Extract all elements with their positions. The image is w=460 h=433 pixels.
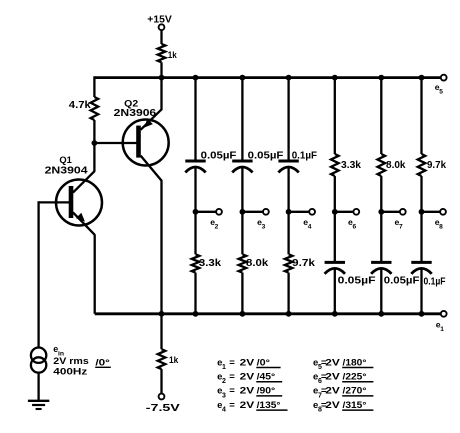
- label e3: [257, 217, 265, 231]
- svg-text:1k: 1k: [168, 50, 178, 61]
- value label 1k (R1): [168, 50, 178, 61]
- wire node e2 to R4: [194, 212, 196, 255]
- label e8: [435, 217, 443, 231]
- value label 0.05µF (C2): [248, 151, 284, 162]
- label 2V rms: [53, 356, 89, 367]
- value label 0.1µF (C3): [292, 151, 317, 162]
- node e8 junction: [419, 209, 425, 215]
- svg-text:2: 2: [215, 223, 219, 230]
- value label 9.7k (R9): [427, 160, 446, 171]
- value label 0.05µF (C1): [201, 151, 237, 162]
- wire R2 to node A: [93, 120, 95, 143]
- wire R8 to node e7: [380, 176, 382, 212]
- svg-text:8: 8: [439, 223, 443, 230]
- junction dot bottom bus / branch 1: [193, 311, 199, 317]
- label e7: [395, 217, 403, 231]
- terminal e5 (top right): [441, 75, 447, 81]
- wire R5 to bottom bus: [241, 273, 243, 314]
- label equation e4 = 2V angle 135 deg: [217, 400, 287, 414]
- label equation e3 = 2V angle 90 deg: [217, 386, 282, 400]
- value label 8.0k (R8): [386, 160, 406, 171]
- svg-text:=: =: [229, 357, 235, 368]
- wire R3 to -7.5V terminal: [160, 369, 162, 394]
- svg-text:4: 4: [308, 223, 312, 230]
- svg-text:8.0k: 8.0k: [246, 258, 269, 269]
- label Q1: [59, 155, 72, 166]
- transistor Q2 base bar: [136, 126, 141, 158]
- wire R7 to node e6: [334, 176, 336, 212]
- wire node A down to Q1 collector: [93, 143, 95, 172]
- junction dot bottom bus / branch 4: [332, 311, 338, 317]
- label 2N3904: [45, 165, 89, 176]
- transistor Q1 base bar: [69, 186, 74, 218]
- wire branch 3 top bus to C3: [287, 78, 289, 161]
- terminal e2: [216, 209, 222, 215]
- svg-text:/90°: /90°: [257, 386, 276, 397]
- label equation e1 = 2V angle 0 deg: [217, 357, 281, 371]
- wire R6 to bottom bus: [287, 273, 289, 314]
- value label 0.05µF (C4): [338, 276, 376, 287]
- svg-text:/225°: /225°: [343, 372, 367, 383]
- svg-text:9.7k: 9.7k: [292, 258, 316, 269]
- capacitor C5 0.05µF: [371, 262, 391, 273]
- node e3 junction: [240, 209, 246, 215]
- node e7 junction: [378, 209, 384, 215]
- transistor Q1 emitter lead: [73, 212, 95, 234]
- value label 0.1µF (C6): [424, 277, 446, 288]
- svg-text:3: 3: [262, 223, 266, 230]
- wire node e4 to terminal: [289, 211, 310, 213]
- junction dot top bus / branch 4: [332, 75, 338, 81]
- wire R1 to top bus: [160, 62, 162, 77]
- svg-text:Q1: Q1: [59, 155, 72, 166]
- power terminal -7.5V: [146, 394, 180, 414]
- svg-text:2V: 2V: [325, 400, 340, 411]
- svg-text:+15V: +15V: [147, 15, 172, 26]
- wire node e2 to terminal: [196, 211, 217, 213]
- value label 8.0k (R5): [246, 258, 269, 269]
- svg-text:0.1µF: 0.1µF: [292, 151, 317, 162]
- svg-text:/0°: /0°: [257, 357, 271, 368]
- terminal e4: [309, 209, 315, 215]
- label equation e5 = 2V angle 180 deg: [313, 357, 373, 371]
- svg-text:/45°: /45°: [257, 372, 276, 383]
- node e6 junction: [332, 209, 338, 215]
- junction dot top bus / branch 6: [419, 75, 425, 81]
- value label 4.7k (R2): [69, 100, 91, 111]
- label e_in: [53, 344, 64, 358]
- label e5: [435, 82, 443, 96]
- value label 3.3k (R7): [341, 160, 361, 171]
- junction dot top bus / branch 1: [193, 75, 199, 81]
- label e2: [210, 217, 218, 231]
- junction bottom bus / Q2 collector rail: [159, 311, 165, 317]
- wire branch 6 top bus to R9: [420, 78, 422, 154]
- svg-text:4: 4: [222, 407, 226, 414]
- terminal e8: [440, 209, 446, 215]
- wire node e3 to terminal: [242, 211, 263, 213]
- svg-text:2: 2: [222, 378, 226, 385]
- wire Q1 emitter down to bottom bus: [94, 234, 96, 313]
- power terminal +15V: [147, 15, 172, 30]
- svg-text:/135°: /135°: [257, 400, 281, 411]
- label equation e6 = 2V angle 225 deg: [313, 372, 373, 386]
- svg-text:0.05µF: 0.05µF: [384, 276, 420, 287]
- wire branch 4 top bus to R7: [334, 78, 336, 154]
- capacitor C3 0.1µF: [278, 161, 298, 172]
- wire node e3 to R5: [241, 212, 243, 255]
- transistor Q2 emitter lead: [141, 78, 162, 130]
- resistor R3 1k (to -7.5V): [158, 349, 166, 369]
- wire C4 to bottom bus: [334, 269, 336, 314]
- wire node e7 to terminal: [381, 211, 400, 213]
- svg-text:2V: 2V: [325, 372, 340, 383]
- label e1: [436, 319, 444, 333]
- svg-text:1: 1: [222, 364, 226, 371]
- source e_in (2V rms 400Hz): [31, 348, 46, 373]
- wire node e6 to C4: [334, 212, 336, 263]
- value label 0.05µF (C5): [384, 276, 420, 287]
- resistor R5 8.0k: [239, 254, 247, 272]
- svg-text:9.7k: 9.7k: [427, 160, 446, 171]
- transistor Q1 collector lead: [73, 171, 94, 192]
- svg-text:2N3904: 2N3904: [45, 165, 89, 176]
- junction dot top bus / branch 3: [286, 75, 292, 81]
- label equation e2 = 2V angle 45 deg: [217, 372, 282, 386]
- junction dot bottom bus / branch 2: [240, 311, 246, 317]
- wire C3 to node e4: [287, 167, 289, 211]
- svg-text:3.3k: 3.3k: [341, 160, 361, 171]
- svg-text:0.05µF: 0.05µF: [248, 151, 284, 162]
- junction dot top bus / branch 5: [378, 75, 384, 81]
- wire bottom bus: [95, 312, 441, 315]
- svg-text:1k: 1k: [169, 355, 179, 366]
- wire C1 to node e2: [194, 167, 196, 211]
- resistor R1 1k (from +15V): [158, 44, 166, 62]
- svg-text:/270°: /270°: [343, 386, 367, 397]
- svg-text:=: =: [229, 386, 235, 397]
- ground symbol: [28, 401, 49, 409]
- terminal e7: [400, 209, 406, 215]
- resistor R8 8.0k: [378, 154, 386, 176]
- svg-text:0.05µF: 0.05µF: [338, 276, 376, 287]
- svg-text:2N3906: 2N3906: [114, 108, 157, 119]
- label 400Hz: [53, 367, 87, 378]
- svg-text:=: =: [229, 372, 235, 383]
- terminal e6: [353, 209, 359, 215]
- wire source to ground: [37, 373, 39, 401]
- svg-text:2V: 2V: [325, 357, 340, 368]
- junction dot bottom bus / branch 6: [419, 311, 425, 317]
- svg-text:-7.5V: -7.5V: [146, 403, 180, 414]
- wire Q1 base: [39, 201, 70, 203]
- svg-text:2V: 2V: [240, 400, 255, 411]
- node e2 junction: [193, 209, 199, 215]
- transistor Q1 2N3904 circle: [56, 180, 102, 226]
- wire node e4 to R6: [287, 212, 289, 255]
- svg-text:2V: 2V: [240, 386, 255, 397]
- wire R4 to bottom bus: [194, 273, 196, 314]
- label equation e7 = 2V angle 270 deg: [313, 386, 373, 400]
- svg-text:8.0k: 8.0k: [386, 160, 406, 171]
- junction dot bottom bus / branch 5: [378, 311, 384, 317]
- junction top bus / VCC rail: [159, 75, 165, 81]
- wire top bus left end down to R2: [93, 76, 95, 97]
- label angle 0 deg (input): [95, 357, 111, 368]
- capacitor C6 0.1µF: [411, 262, 431, 273]
- wire node e8 to terminal: [422, 211, 441, 213]
- resistor R2 4.7k: [91, 97, 99, 120]
- svg-text:1: 1: [440, 326, 444, 333]
- terminal e3: [263, 209, 269, 215]
- label e6: [348, 217, 356, 231]
- capacitor C2 0.05µF: [232, 161, 252, 172]
- svg-text:3.3k: 3.3k: [199, 258, 222, 269]
- value label 9.7k (R6): [292, 258, 316, 269]
- wire node A to Q2 base: [94, 142, 137, 144]
- wire C6 to bottom bus: [420, 269, 422, 314]
- svg-text:4.7k: 4.7k: [69, 100, 91, 111]
- capacitor C1 0.05µF: [185, 161, 205, 172]
- resistor R4 3.3k: [192, 254, 200, 272]
- svg-text:3: 3: [222, 392, 226, 399]
- svg-text:5: 5: [439, 88, 443, 95]
- svg-text:0.1µF: 0.1µF: [424, 277, 446, 288]
- label equation e8 = 2V angle 315 deg: [313, 400, 373, 414]
- wire input rail down: [37, 201, 39, 347]
- wire C5 to bottom bus: [380, 269, 382, 314]
- label 2N3906: [114, 108, 157, 119]
- wire C2 to node e3: [241, 167, 243, 211]
- capacitor C4 0.05µF: [325, 262, 345, 273]
- svg-text:2V: 2V: [325, 386, 340, 397]
- svg-text:400Hz: 400Hz: [53, 367, 87, 378]
- transistor Q2 collector lead: [141, 156, 162, 314]
- transistor Q1 emitter arrow: [76, 213, 85, 222]
- wire node e7 to C5: [380, 212, 382, 263]
- junction dot top bus / branch 2: [240, 75, 246, 81]
- resistor R7 3.3k: [331, 154, 339, 176]
- svg-text:0.05µF: 0.05µF: [201, 151, 237, 162]
- wire +15V to R1: [160, 30, 162, 44]
- wire node e8 to C6: [420, 212, 422, 263]
- wire R9 to node e8: [420, 176, 422, 212]
- svg-text:2V: 2V: [240, 357, 255, 368]
- node e4 junction: [286, 209, 292, 215]
- svg-text:=: =: [229, 400, 235, 411]
- svg-text:/315°: /315°: [343, 400, 367, 411]
- svg-text:2V rms: 2V rms: [53, 356, 89, 367]
- node A junction (Q1 collector / Q2 base): [92, 140, 98, 146]
- wire bottom bus to R3: [160, 314, 162, 349]
- label Q2: [124, 99, 138, 110]
- wire branch 2 top bus to C2: [241, 78, 243, 161]
- svg-text:6: 6: [352, 223, 356, 230]
- terminal e1 (bottom right): [441, 311, 447, 317]
- wire branch 1 top bus to C1: [194, 78, 196, 161]
- label e4: [303, 217, 311, 231]
- transistor Q2 2N3906 circle: [123, 120, 169, 166]
- svg-text:2V: 2V: [240, 372, 255, 383]
- wire top bus: [94, 76, 441, 79]
- resistor R6 9.7k: [285, 254, 293, 272]
- svg-text:/180°: /180°: [343, 357, 367, 368]
- value label 3.3k (R4): [199, 258, 222, 269]
- svg-text:7: 7: [399, 223, 403, 230]
- junction dot bottom bus / branch 3: [286, 311, 292, 317]
- transistor Q2 emitter arrow: [144, 119, 153, 128]
- wire node e6 to terminal: [335, 211, 354, 213]
- wire branch 5 top bus to R8: [380, 78, 382, 154]
- resistor R9 9.7k: [418, 154, 426, 176]
- value label 1k (R3): [169, 355, 179, 366]
